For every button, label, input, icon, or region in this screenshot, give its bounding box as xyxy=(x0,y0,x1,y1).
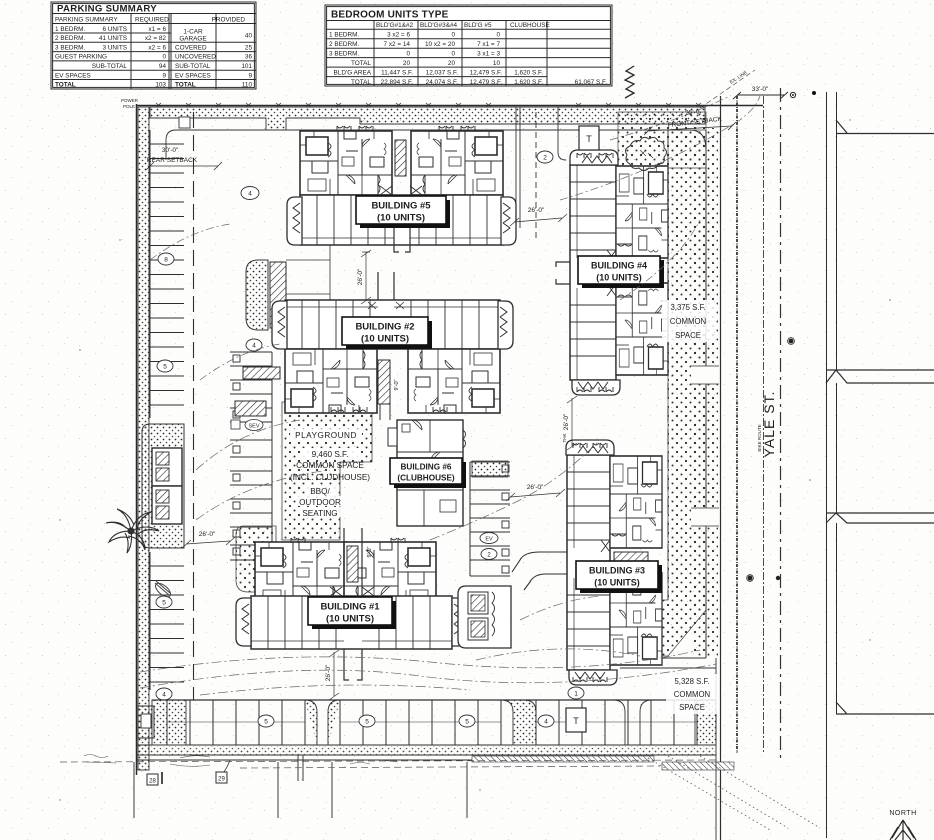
svg-text:POLE: POLE xyxy=(123,104,135,109)
svg-text:24,074 S.F.: 24,074 S.F. xyxy=(426,79,459,86)
svg-text:26'-0": 26'-0" xyxy=(527,484,544,491)
svg-text:SPACE: SPACE xyxy=(679,703,705,712)
svg-text:SEATING: SEATING xyxy=(302,509,337,518)
svg-text:TOTAL: TOTAL xyxy=(351,79,371,86)
svg-text:40: 40 xyxy=(245,33,253,40)
covered stall squares center column xyxy=(233,355,240,555)
svg-text:5: 5 xyxy=(163,364,167,371)
svg-text:EV SPACES: EV SPACES xyxy=(55,72,91,79)
building #2 label xyxy=(342,317,432,349)
building #1 right stair cap xyxy=(452,598,467,646)
parking summary table xyxy=(51,2,256,89)
survey dot markers top right xyxy=(790,92,795,97)
building #3 upper unit cluster xyxy=(610,456,662,548)
svg-text:0: 0 xyxy=(496,32,500,39)
contour dashdot curves lower field xyxy=(140,649,716,695)
bedroom units type table xyxy=(325,5,612,86)
hc hatched access aisle xyxy=(270,262,286,328)
svg-text:0: 0 xyxy=(162,54,166,61)
svg-text:1 BEDRM.: 1 BEDRM. xyxy=(55,26,85,33)
ev box small top xyxy=(316,330,324,338)
svg-text:COMMON SPACE: COMMON SPACE xyxy=(296,461,364,470)
svg-text:REQUIRED: REQUIRED xyxy=(135,16,169,23)
svg-text:110: 110 xyxy=(242,82,253,89)
svg-text:T: T xyxy=(586,134,592,144)
building #1 right unit cluster xyxy=(344,542,436,606)
svg-text:TOTAL: TOTAL xyxy=(55,82,76,89)
building #5 left stair cap xyxy=(287,197,302,245)
svg-text:4: 4 xyxy=(252,343,256,350)
svg-text:5: 5 xyxy=(162,600,166,607)
parkway walkway gaps xyxy=(691,366,719,526)
circled 8 xyxy=(158,253,174,265)
building #1 center stair shaft xyxy=(347,546,358,582)
svg-text:(10 UNITS): (10 UNITS) xyxy=(361,334,409,345)
yale st parkway rough line xyxy=(736,96,738,753)
utility box bottom left corner xyxy=(138,706,154,738)
svg-text:0: 0 xyxy=(451,50,455,57)
playground text xyxy=(290,429,370,482)
rounded curb top right corner xyxy=(560,130,706,150)
svg-text:1-CAR: 1-CAR xyxy=(183,29,203,36)
svg-text:10: 10 xyxy=(493,60,501,67)
contour curves top left xyxy=(150,224,280,380)
building #3 bottom stair cap xyxy=(569,670,617,685)
building #6 label xyxy=(390,458,466,488)
building #1 left unit cluster xyxy=(255,542,347,606)
building #1 roof bumps xyxy=(291,538,305,543)
scan noise specks xyxy=(59,119,891,800)
bottom row curb island left xyxy=(152,700,340,745)
svg-text:28: 28 xyxy=(149,779,156,785)
svg-text:TOTAL: TOTAL xyxy=(351,60,371,67)
north arrow xyxy=(889,810,916,840)
center parking column stalls xyxy=(230,352,272,560)
front setback dim arrows xyxy=(644,122,736,135)
building #3 stair shaft xyxy=(614,552,648,563)
dim 9-0 near b2 stair xyxy=(394,379,400,390)
svg-text:BUILDING #6: BUILDING #6 xyxy=(401,463,452,472)
building #3 breezeway walkway west xyxy=(512,540,610,590)
dim 26-0 below building 1 xyxy=(325,650,339,700)
building #4 bottom stair cap xyxy=(572,380,620,395)
svg-text:SUB-TOTAL: SUB-TOTAL xyxy=(92,63,128,70)
circled 2 top entry xyxy=(537,151,553,163)
building #4 stair shaft xyxy=(620,262,654,273)
svg-text:(10 UNITS): (10 UNITS) xyxy=(377,213,425,224)
fence tick marks along north property line xyxy=(156,103,701,107)
transformer box T top xyxy=(579,126,599,150)
svg-text:GUEST PARKING: GUEST PARKING xyxy=(55,54,107,61)
building #4 label xyxy=(578,256,664,288)
svg-text:SEV: SEV xyxy=(248,424,259,430)
svg-text:5: 5 xyxy=(365,719,369,726)
svg-text:2 BEDRM.: 2 BEDRM. xyxy=(55,35,85,42)
svg-text:22,894 S.F.: 22,894 S.F. xyxy=(381,79,414,86)
common space stipple 3375 upper right xyxy=(620,130,706,656)
tree cloud top right xyxy=(626,137,667,170)
circled hc xyxy=(291,304,309,316)
palm tree left xyxy=(106,509,159,553)
svg-text:BLD'G AREA: BLD'G AREA xyxy=(334,69,372,76)
dim 26-0 near building 4 xyxy=(510,207,567,226)
building #2 breezeway up xyxy=(368,272,404,309)
building #4 breezeway xyxy=(556,250,616,296)
svg-text:36: 36 xyxy=(245,54,253,61)
contour curves top right xyxy=(560,96,760,300)
building #1 label xyxy=(308,597,396,629)
svg-text:x2 = 82: x2 = 82 xyxy=(145,35,167,42)
bottom row curb island right xyxy=(695,700,716,745)
building #5 left unit cluster xyxy=(300,131,392,195)
south asphalt hatch strip far right xyxy=(662,762,734,770)
svg-text:EV SPACES: EV SPACES xyxy=(175,72,211,79)
utility notch box top left xyxy=(179,117,190,128)
bottom parking row xyxy=(152,700,716,745)
central common space stipple (playground + bbq) xyxy=(282,402,372,540)
north perimeter planter band xyxy=(150,107,705,130)
svg-text:BLD'G #5: BLD'G #5 xyxy=(464,22,492,29)
building #3 roof bumps xyxy=(573,443,587,448)
svg-text:COMMON: COMMON xyxy=(670,317,706,326)
yale st west curb line xyxy=(720,96,722,840)
rear setback dashed line xyxy=(193,112,195,700)
svg-text:29: 29 xyxy=(218,777,225,783)
svg-text:26'-0": 26'-0" xyxy=(199,531,216,538)
circled 4 left bottom xyxy=(156,688,172,700)
south asphalt hatch strip right xyxy=(472,756,654,762)
building #5 roof bumps xyxy=(337,126,351,131)
svg-text:0: 0 xyxy=(451,32,455,39)
building #2 right unit cluster xyxy=(408,349,500,413)
svg-text:EV: EV xyxy=(485,537,493,543)
svg-text:26'-0": 26'-0" xyxy=(528,207,545,214)
dashed utility lines below site xyxy=(60,760,716,768)
svg-text:12,479 S.F.: 12,479 S.F. xyxy=(470,69,503,76)
detached garage next to building #1 xyxy=(458,586,511,648)
svg-text:12,037 S.F.: 12,037 S.F. xyxy=(426,69,459,76)
svg-text:3 BEDRM.: 3 BEDRM. xyxy=(55,44,85,51)
svg-text:BUILDING #4: BUILDING #4 xyxy=(591,261,647,271)
svg-text:1,620 S.F.: 1,620 S.F. xyxy=(514,69,543,76)
street verticals below site xyxy=(134,755,467,818)
svg-text:26'-0": 26'-0" xyxy=(357,268,364,285)
svg-text:BIKE ROUTE: BIKE ROUTE xyxy=(757,424,762,451)
svg-text:YALE ST.: YALE ST. xyxy=(761,391,777,458)
right drive aisle dashed line xyxy=(667,130,669,600)
svg-text:2 BEDRM.: 2 BEDRM. xyxy=(329,41,359,48)
dim 26-0 left near palm xyxy=(182,531,235,548)
bottom right entry drive xyxy=(620,658,716,840)
circled 5 left upper xyxy=(157,360,173,372)
svg-text:1 BEDRM.: 1 BEDRM. xyxy=(329,32,359,39)
svg-text:20: 20 xyxy=(403,60,411,67)
east parkway planter band xyxy=(692,128,718,656)
dim 26-0 vertical between b5 b2 xyxy=(357,250,371,304)
building #3 lower unit cluster xyxy=(610,573,662,665)
bbq outdoor seating text xyxy=(298,486,344,518)
building #3 garage column xyxy=(567,455,610,670)
walkway b2 stair to clubhouse xyxy=(380,404,390,420)
svg-text:12,479 S.F.: 12,479 S.F. xyxy=(470,79,503,86)
building #5 label xyxy=(356,196,450,228)
svg-text:NORTH: NORTH xyxy=(889,810,916,817)
survey dot markers mid right xyxy=(789,339,794,344)
svg-text:9: 9 xyxy=(248,72,252,79)
angled car scribble in stall xyxy=(153,581,173,599)
covered stall squares right column xyxy=(502,465,509,573)
hatched walkway in center column lower xyxy=(235,401,266,416)
yale st east edge line xyxy=(780,88,782,758)
building #2 left unit cluster xyxy=(285,349,377,413)
svg-text:(CLUBHOUSE): (CLUBHOUSE) xyxy=(397,474,455,483)
building #5 right stair cap xyxy=(501,197,516,245)
circled 1 bottom xyxy=(568,687,584,699)
dim 26-0 left of building 3 xyxy=(506,484,565,501)
circled 5 left lower xyxy=(156,596,172,608)
building #4 upper unit cluster xyxy=(616,166,668,258)
building #1 garage row xyxy=(251,596,452,649)
building #2 left stair cap xyxy=(272,301,287,349)
dim 9-0 near b1 stair xyxy=(367,546,373,557)
building #1 left stair cap xyxy=(236,598,251,646)
svg-text:11,447 S.F.: 11,447 S.F. xyxy=(381,69,413,76)
main internal drive curbs around building 5 block xyxy=(166,130,560,160)
svg-text:101: 101 xyxy=(241,63,252,70)
svg-text:BEDROOM UNITS TYPE: BEDROOM UNITS TYPE xyxy=(331,10,449,21)
building #2 center stair shaft xyxy=(378,360,390,404)
svg-text:GARAGE: GARAGE xyxy=(179,36,206,43)
svg-text:41 UNITS: 41 UNITS xyxy=(99,35,127,42)
svg-text:10 x2 = 20: 10 x2 = 20 xyxy=(425,41,455,48)
front setback stipple area top right xyxy=(618,112,706,168)
svg-text:0: 0 xyxy=(406,50,410,57)
svg-text:26'-0": 26'-0" xyxy=(325,664,332,681)
left parking column lower stalls xyxy=(150,552,184,690)
svg-text:SPACE: SPACE xyxy=(675,331,701,340)
right parking column stalls xyxy=(470,462,510,576)
svg-text:POWER: POWER xyxy=(121,98,139,103)
rear setback dim line xyxy=(146,162,222,170)
building #5 right unit cluster xyxy=(411,131,503,195)
west perimeter planter band xyxy=(138,107,149,770)
svg-text:PROVIDED: PROVIDED xyxy=(212,16,246,23)
svg-text:9,460 S.F.: 9,460 S.F. xyxy=(312,450,349,459)
circled 4 center column xyxy=(246,339,262,351)
circled ev right column xyxy=(480,533,498,544)
svg-text:9'-0": 9'-0" xyxy=(367,546,373,557)
bottom row curb island mid xyxy=(501,700,536,745)
yale st sidewalk line xyxy=(763,96,765,753)
svg-text:3 x1 = 3: 3 x1 = 3 xyxy=(477,50,500,57)
svg-text:5: 5 xyxy=(465,719,469,726)
svg-text:TOTAL: TOTAL xyxy=(175,82,196,89)
building #4 top stair cap xyxy=(570,150,618,165)
building #2 right stair cap xyxy=(498,301,513,349)
svg-text:1: 1 xyxy=(574,691,578,698)
building #4 garage column xyxy=(570,165,616,380)
survey dots bottom right xyxy=(748,576,753,581)
svg-text:UNCOVERED: UNCOVERED xyxy=(175,54,216,61)
svg-text:1,620 S.F.: 1,620 S.F. xyxy=(514,79,543,86)
trash enclosure island left xyxy=(142,424,184,548)
building #5 center stair shaft xyxy=(395,140,406,176)
clubhouse building #6 xyxy=(388,420,466,526)
circled 4 top center xyxy=(241,187,259,200)
svg-text:61,067 S.F.: 61,067 S.F. xyxy=(575,79,608,86)
sev marker center column xyxy=(231,420,263,431)
svg-text:9'-0": 9'-0" xyxy=(394,379,400,390)
dim 26-0 above building 3 xyxy=(563,396,577,450)
svg-text:THK: THK xyxy=(562,434,567,443)
svg-text:6 UNITS: 6 UNITS xyxy=(102,26,127,33)
scan scribbles below site xyxy=(84,755,398,767)
svg-text:30'-0": 30'-0" xyxy=(162,147,179,154)
svg-text:9: 9 xyxy=(162,72,166,79)
3375 sf common space text xyxy=(662,300,714,342)
svg-text:3 x2 = 6: 3 x2 = 6 xyxy=(387,32,410,39)
circled 2 right column xyxy=(481,549,497,560)
diagonal line annotation top right xyxy=(700,70,755,108)
svg-text:4: 4 xyxy=(162,692,166,699)
svg-text:4: 4 xyxy=(248,191,252,198)
building #3 label xyxy=(576,561,662,593)
svg-text:(10 UNITS): (10 UNITS) xyxy=(594,578,640,588)
svg-text:BUILDING #5: BUILDING #5 xyxy=(371,201,431,212)
33'-0" dimension top right xyxy=(733,92,788,99)
svg-text:94: 94 xyxy=(159,63,167,70)
bbq west stipple band xyxy=(236,526,276,592)
front setback text xyxy=(666,106,723,130)
east side driveway stubs xyxy=(826,120,934,714)
building #1 breezeway xyxy=(330,528,374,680)
svg-text:PARKING SUMMARY: PARKING SUMMARY xyxy=(55,16,118,23)
building #5 garage row xyxy=(300,195,503,245)
dotted diagonals bottom right xyxy=(648,756,820,830)
svg-text:20: 20 xyxy=(448,60,456,67)
svg-text:REAR SETBACK: REAR SETBACK xyxy=(147,157,198,164)
svg-text:103: 103 xyxy=(155,82,166,89)
hatched walkway in center column upper xyxy=(243,367,280,379)
revision cloud zigzag right of table xyxy=(625,66,634,98)
svg-text:5: 5 xyxy=(264,719,268,726)
keynote box 28 xyxy=(147,774,158,785)
building #5 breezeway xyxy=(380,186,422,252)
svg-text:5,328 S.F.: 5,328 S.F. xyxy=(674,677,709,686)
svg-text:3 UNITS: 3 UNITS xyxy=(102,44,127,51)
svg-text:33'-0": 33'-0" xyxy=(752,86,769,93)
east curb line inner xyxy=(705,130,707,658)
svg-text:(10 UNITS): (10 UNITS) xyxy=(326,614,374,625)
svg-text:26'-0": 26'-0" xyxy=(563,413,570,430)
svg-text:BBQ/: BBQ/ xyxy=(310,487,330,496)
circled 1 top xyxy=(314,304,330,316)
svg-text:BLD'G#3&#4: BLD'G#3&#4 xyxy=(420,22,458,29)
svg-text:4: 4 xyxy=(544,719,548,726)
svg-text:3,375 S.F.: 3,375 S.F. xyxy=(670,303,705,312)
transformer box T bottom right xyxy=(566,708,586,732)
building #3 top stair cap xyxy=(566,440,614,455)
west property line xyxy=(136,104,138,775)
left parking column upper stalls xyxy=(150,130,184,418)
svg-text:x1 = 6: x1 = 6 xyxy=(148,26,166,33)
5328 sf common space text xyxy=(666,674,718,714)
south site boundary lines xyxy=(136,745,716,760)
building #2 roof bumps bottom xyxy=(331,407,345,412)
svg-text:BUILDING #3: BUILDING #3 xyxy=(589,566,645,576)
building #4 roof bumps xyxy=(577,153,591,158)
svg-text:BLD'G#1&#2: BLD'G#1&#2 xyxy=(376,22,414,29)
svg-text:BUILDING #1: BUILDING #1 xyxy=(320,602,380,613)
building #2 garage row xyxy=(285,300,500,349)
svg-text:PLAYGROUND: PLAYGROUND xyxy=(295,431,357,440)
svg-text:8: 8 xyxy=(164,257,168,264)
svg-text:7 x2 = 14: 7 x2 = 14 xyxy=(384,41,411,48)
east side property double line xyxy=(827,92,837,838)
top entry drive from yale xyxy=(508,107,566,240)
svg-text:COMMON: COMMON xyxy=(674,690,710,699)
north property line xyxy=(136,105,763,107)
svg-text:CLUBHOUSE: CLUBHOUSE xyxy=(510,22,550,29)
keynote box 29 xyxy=(216,772,227,783)
svg-text:x2 = 6: x2 = 6 xyxy=(148,44,166,51)
svg-text:OUTDOOR: OUTDOOR xyxy=(299,498,341,507)
svg-text:SUB-TOTAL: SUB-TOTAL xyxy=(175,63,211,70)
south perimeter stipple strip xyxy=(137,746,715,755)
svg-text:COVERED: COVERED xyxy=(175,44,207,51)
contour dashdot curves center courtyard xyxy=(196,420,600,620)
right column top stipple island xyxy=(472,461,508,477)
hc stall lines top xyxy=(286,240,330,345)
svg-text:BUILDING #2: BUILDING #2 xyxy=(355,322,414,333)
svg-text:(10 UNITS): (10 UNITS) xyxy=(596,273,642,283)
svg-text:PARKING SUMMARY: PARKING SUMMARY xyxy=(57,3,157,14)
svg-text:2: 2 xyxy=(543,155,547,162)
svg-text:3 BEDRM.: 3 BEDRM. xyxy=(329,50,359,57)
hc curb island top xyxy=(246,260,268,330)
svg-text:T: T xyxy=(573,716,579,726)
circled numbers bottom row xyxy=(258,715,274,727)
building #4 lower unit cluster xyxy=(616,283,668,375)
svg-text:7 x1 = 7: 7 x1 = 7 xyxy=(477,41,500,48)
svg-text:25: 25 xyxy=(245,44,253,51)
